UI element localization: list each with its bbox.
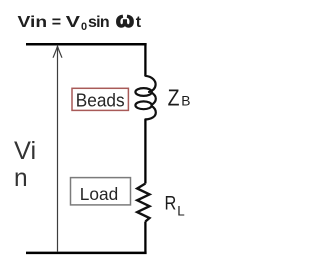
Load box — [71, 178, 131, 205]
svg-text:RL: RL — [165, 194, 185, 219]
wire: top horizontal — [26, 43, 147, 46]
svg-text:Vin=V0sinωt: Vin=V0sinωt — [18, 8, 142, 33]
svg-text:Vi: Vi — [14, 137, 36, 165]
inductor ZB (curly coil) — [135, 76, 155, 120]
svg-text:Load: Load — [80, 184, 118, 204]
svg-text:n: n — [14, 164, 28, 192]
Beads box — [72, 88, 128, 110]
wire: bottom horizontal — [26, 252, 147, 255]
resistor RL (zigzag) — [137, 184, 149, 222]
Vin source arrow head (open barb) — [53, 46, 62, 57]
wire: right vertical lower (resistor to bottom) — [144, 222, 146, 254]
svg-text:ZB: ZB — [168, 85, 191, 111]
wire: right vertical middle (inductor to resistor) — [144, 119, 146, 183]
svg-text:Beads: Beads — [76, 90, 125, 110]
wire: right vertical upper (top corner to inductor) — [144, 43, 146, 76]
Vin source arrow shaft — [57, 47, 59, 252]
